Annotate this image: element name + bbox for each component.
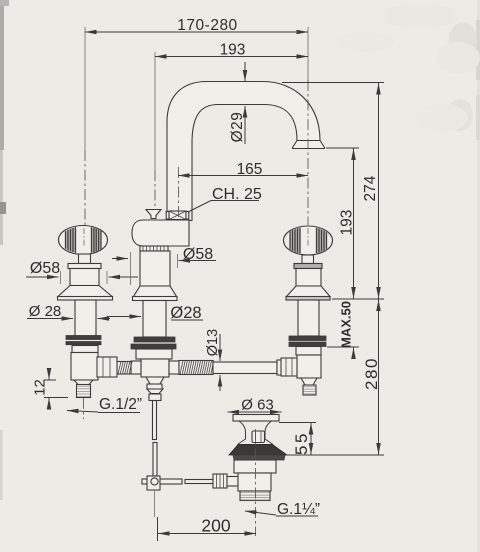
svg-text:G.1¼”: G.1¼” [277, 501, 320, 518]
svg-text:193: 193 [339, 210, 356, 236]
svg-text:Ø29: Ø29 [229, 112, 246, 143]
svg-text:12: 12 [32, 379, 49, 396]
svg-text:274: 274 [362, 175, 379, 201]
svg-text:MAX.50: MAX.50 [339, 301, 354, 348]
svg-text:Ø13: Ø13 [205, 329, 221, 356]
svg-text:165: 165 [237, 161, 263, 178]
svg-text:55: 55 [292, 431, 311, 455]
svg-text:200: 200 [201, 516, 230, 536]
svg-text:Ø 63: Ø 63 [241, 397, 274, 414]
svg-text:193: 193 [220, 42, 246, 59]
svg-text:Ø58: Ø58 [30, 260, 60, 277]
svg-text:170-280: 170-280 [177, 17, 237, 34]
svg-text:Ø 28: Ø 28 [29, 303, 62, 320]
svg-text:Ø28: Ø28 [170, 304, 201, 322]
svg-text:280: 280 [362, 357, 381, 390]
svg-text:G.1/2”: G.1/2” [99, 396, 142, 413]
